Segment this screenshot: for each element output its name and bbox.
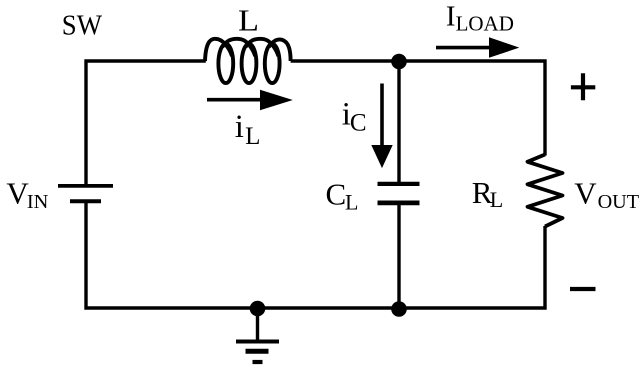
wire: capacitor branch lower segment: [397, 203, 400, 309]
svg-text:VOUT: VOUT: [574, 176, 639, 213]
node: bottom junction (capacitor to ground rail): [391, 301, 407, 317]
ground bar 1 (widest): [236, 340, 279, 344]
battery VIN long plate: [58, 184, 113, 188]
svg-text:iC: iC: [342, 96, 367, 136]
ground bar 2 (middle): [246, 349, 269, 354]
arrow ILOAD shaft: [436, 46, 491, 50]
node: top junction (inductor/capacitor/load): [391, 54, 407, 70]
arrow iC shaft: [380, 84, 384, 148]
arrow iL head: [260, 90, 293, 110]
svg-text:RL: RL: [472, 175, 504, 212]
resistor RL zigzag: [528, 155, 563, 227]
wire: top-left L from battery + up through SW corner to inductor: [86, 61, 206, 185]
arrow iL shaft: [207, 98, 263, 102]
arrow iC head: [371, 145, 392, 168]
wire: capacitor branch upper segment: [397, 61, 400, 184]
ground bar 3 (smallest): [253, 360, 263, 364]
wire: ground stub: [256, 308, 259, 342]
wire: top-right from inductor across load node to RL top: [291, 61, 545, 156]
svg-text:VIN: VIN: [6, 176, 48, 213]
inductor L coil: [205, 39, 291, 83]
svg-text:iL: iL: [235, 109, 261, 150]
svg-text:ILOAD: ILOAD: [446, 1, 514, 36]
capacitor CL top plate: [378, 182, 420, 186]
svg-text:SW: SW: [62, 10, 103, 42]
battery VIN short plate: [70, 199, 101, 203]
svg-text:L: L: [238, 3, 259, 38]
polarity plus sign: [571, 73, 595, 100]
arrow ILOAD head: [489, 37, 519, 58]
polarity minus sign: [570, 287, 596, 291]
wire: bottom rail from RL bottom to battery minus: [86, 203, 545, 308]
node: ground junction: [250, 301, 266, 317]
capacitor CL bottom plate: [378, 200, 420, 205]
svg-text:CL: CL: [326, 176, 359, 214]
